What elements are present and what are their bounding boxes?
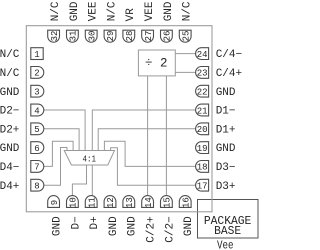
svg-text:GND: GND [0, 87, 20, 99]
pin 11 (D+) [85, 196, 97, 208]
pin 32 (N/C) [48, 30, 60, 42]
svg-text:4: 4 [34, 106, 39, 116]
package base box [198, 200, 259, 239]
svg-text:10: 10 [69, 197, 79, 208]
svg-text:N/C: N/C [0, 68, 20, 80]
svg-text:18: 18 [197, 163, 208, 173]
pin 31 (GND) [67, 30, 79, 42]
wire mux output to pin11 D+ [91, 165, 93, 196]
wire divider to pin23 C/4+ [175, 71, 195, 73]
pin 3 (GND) [31, 85, 44, 97]
pin 1 (N/C) [31, 48, 43, 60]
pin 5 (D2+) [31, 123, 44, 135]
svg-text:÷ 2: ÷ 2 [145, 57, 168, 71]
pin 13 (GND) [123, 196, 135, 208]
svg-text:N/C: N/C [0, 49, 20, 61]
svg-text:N/C: N/C [50, 1, 62, 21]
svg-text:D2+: D2+ [0, 124, 19, 136]
svg-text:28: 28 [125, 31, 135, 42]
svg-text:26: 26 [163, 31, 173, 42]
wire pin21 D1- to mux input [92, 110, 195, 150]
svg-text:D+: D+ [89, 216, 101, 229]
pin 7 (D4−) [31, 161, 44, 173]
svg-text:D1−: D1− [216, 106, 236, 118]
mux U2 (4:1 multiplexer) [64, 151, 114, 166]
svg-text:C/4−: C/4− [216, 49, 242, 61]
svg-text:3: 3 [34, 88, 39, 98]
svg-text:D3−: D3− [216, 162, 236, 174]
pin 29 (N/C) [104, 30, 116, 42]
svg-text:21: 21 [197, 106, 208, 116]
pin 18 (D3−) [196, 161, 209, 173]
pin 9 (GND) [48, 196, 60, 208]
svg-text:31: 31 [69, 31, 79, 42]
svg-text:C/2+: C/2+ [146, 216, 158, 242]
svg-text:D2−: D2− [0, 106, 19, 118]
divider U1 (divide-by-2) [138, 50, 175, 76]
svg-text:D1+: D1+ [216, 124, 236, 136]
svg-text:GND: GND [216, 143, 236, 155]
wire pin5 D2+ to mux input [44, 129, 79, 151]
pin 24 (C/4−) [196, 48, 209, 60]
pin 20 (D1+) [196, 123, 209, 135]
pin 28 (VR) [123, 30, 135, 42]
svg-text:6: 6 [34, 144, 39, 154]
svg-text:D4−: D4− [0, 162, 19, 174]
pin 17 (D3+) [196, 179, 209, 191]
svg-text:5: 5 [34, 125, 39, 135]
wire pin8 D4+ jog to mux input [44, 148, 67, 186]
svg-text:16: 16 [181, 197, 191, 208]
svg-text:25: 25 [181, 31, 191, 42]
svg-text:30: 30 [87, 31, 97, 42]
pin 4 (D2−) [31, 104, 44, 116]
wire pin7 D4- staircase to mux input [44, 141, 73, 166]
svg-text:1: 1 [34, 50, 39, 60]
wire pin17 D3+ jog to mux input [111, 148, 196, 186]
svg-text:GND: GND [52, 216, 64, 236]
svg-text:15: 15 [163, 197, 173, 208]
svg-text:23: 23 [197, 69, 208, 79]
pin 8 (D4+) [31, 179, 44, 191]
svg-text:12: 12 [106, 197, 116, 208]
svg-text:D−: D− [70, 216, 82, 229]
svg-text:GND: GND [108, 216, 120, 236]
svg-text:8: 8 [34, 182, 39, 192]
wire pin15 C/2- to divider [165, 76, 167, 196]
svg-text:VEE: VEE [144, 1, 156, 21]
svg-text:BASE: BASE [214, 224, 241, 238]
pin 27 (VEE) [142, 30, 154, 42]
svg-text:VEE: VEE [88, 1, 100, 21]
svg-text:C/2−: C/2− [164, 216, 176, 242]
pin 15 (C/2−) [161, 196, 173, 208]
pin 12 (GND) [104, 196, 116, 208]
svg-text:D4+: D4+ [0, 181, 19, 193]
svg-text:22: 22 [197, 88, 208, 98]
svg-text:2: 2 [34, 69, 39, 79]
pin 10 (D−) [67, 196, 79, 208]
svg-text:19: 19 [197, 144, 208, 154]
wire pin18 D3- staircase to mux input [104, 141, 195, 166]
svg-text:7: 7 [34, 163, 39, 173]
svg-text:N/C: N/C [182, 1, 194, 21]
pin 23 (C/4+) [196, 67, 209, 79]
svg-text:VR: VR [125, 8, 137, 22]
svg-text:17: 17 [197, 182, 208, 192]
pin 16 (GND) [179, 196, 191, 208]
wire pin20 D1+ to mux input [98, 129, 195, 151]
svg-text:GND: GND [216, 87, 236, 99]
wire mux output to pin10 D- [72, 165, 86, 196]
wire divider to pin24 C/4- [175, 53, 195, 55]
svg-text:14: 14 [144, 197, 154, 208]
wire pin4 D2- to mux input [44, 110, 85, 150]
svg-text:9: 9 [50, 200, 60, 205]
svg-text:GND: GND [69, 1, 81, 21]
pin 26 (GND) [161, 30, 173, 42]
svg-text:4:1: 4:1 [83, 153, 97, 164]
svg-text:GND: GND [163, 1, 175, 21]
pin 19 (GND) [196, 142, 209, 154]
svg-text:GND: GND [183, 216, 195, 236]
chip package outline [26, 26, 212, 212]
svg-text:20: 20 [197, 125, 208, 135]
svg-text:29: 29 [106, 31, 116, 42]
pin 22 (GND) [196, 85, 209, 97]
pin 2 (N/C) [31, 67, 44, 79]
pin 25 (N/C) [179, 30, 191, 42]
svg-text:32: 32 [50, 31, 60, 42]
svg-text:11: 11 [87, 197, 97, 208]
svg-text:C/4+: C/4+ [216, 68, 242, 80]
svg-text:Vee: Vee [217, 239, 234, 250]
pin 6 (GND) [31, 142, 44, 154]
svg-text:27: 27 [144, 31, 154, 42]
pin 30 (VEE) [85, 30, 97, 42]
svg-text:D3+: D3+ [216, 181, 236, 193]
pin 14 (C/2+) [142, 196, 154, 208]
svg-text:GND: GND [0, 143, 20, 155]
wire pin14 C/2+ to divider [147, 76, 149, 196]
svg-text:N/C: N/C [106, 1, 118, 21]
svg-text:GND: GND [127, 216, 139, 236]
svg-text:24: 24 [197, 50, 208, 60]
svg-text:13: 13 [125, 197, 135, 208]
pin 21 (D1−) [196, 104, 209, 116]
